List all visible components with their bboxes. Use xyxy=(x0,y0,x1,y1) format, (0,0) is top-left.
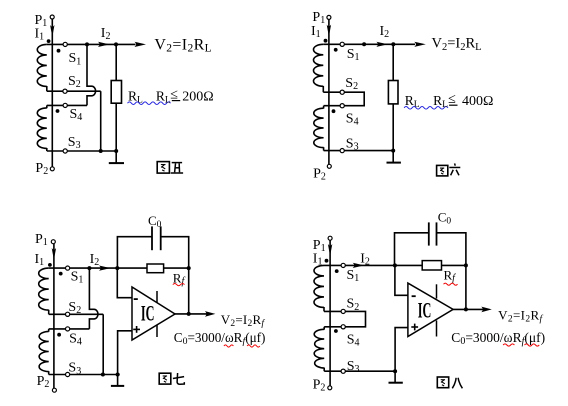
label C0 formula (fig8) xyxy=(451,330,545,347)
wire ground stub (fig6) xyxy=(392,151,394,163)
label S3 (fig5) xyxy=(68,135,81,151)
polarity dot secondary-2 (fig8) xyxy=(334,329,338,333)
secondary winding lower (fig7) xyxy=(39,329,49,375)
spellcheck squiggle blue (fig5) xyxy=(128,102,171,105)
node junction output (fig8) xyxy=(464,307,468,311)
wire S2 line (fig5) xyxy=(47,90,101,92)
terminal S3 (fig5) xyxy=(63,149,67,153)
wire Rf to right node (fig7) xyxy=(164,267,189,269)
terminal S2 (fig8) xyxy=(341,309,345,313)
terminal P2 (fig8) xyxy=(328,386,332,390)
wire bottom node S3 line (fig6) xyxy=(324,150,394,152)
wire bottom node S3 line (fig5) xyxy=(47,150,117,152)
wire bottom node line (fig7) xyxy=(49,374,120,376)
current arrow I2 (fig7) xyxy=(99,266,111,271)
node junction ground (fig5) xyxy=(114,149,118,153)
node junction S2-S3 (fig7) xyxy=(101,373,105,377)
label I2 (fig5) xyxy=(101,26,111,42)
wire primary conductor P1-P2 (fig7) xyxy=(53,244,55,389)
power pin top (fig8) xyxy=(436,284,438,298)
capacitor C0 (fig7) xyxy=(152,226,161,250)
label I2 (fig8) xyxy=(360,251,370,267)
label lessequal bar (fig6) xyxy=(449,104,457,106)
label S1 (fig6) xyxy=(347,47,360,63)
terminal S3 (fig8) xyxy=(341,369,345,373)
current arrow I2 (fig5) xyxy=(98,42,110,47)
terminal P1 (fig8) xyxy=(328,236,332,240)
wire C0 top-left (fig8) xyxy=(395,233,429,266)
polarity dot primary (fig5) xyxy=(47,39,51,43)
polarity dot secondary-2 (fig6) xyxy=(332,109,336,113)
current arrow I1 (fig6) xyxy=(327,25,331,37)
node junction Rf right (fig7) xyxy=(187,266,191,270)
label S3 (fig7) xyxy=(68,361,81,377)
label IC (fig7) xyxy=(141,300,155,325)
caption fig6 glyph tu xyxy=(437,165,448,176)
secondary winding lower (fig8) xyxy=(314,327,324,371)
op-amp IC U2 (fig8) xyxy=(408,283,453,336)
label RL (fig5) xyxy=(128,88,143,105)
polarity dot secondary-1 (fig7) xyxy=(59,272,63,276)
wire top node S1 line (fig6) xyxy=(323,43,415,45)
wire S4 line (fig7) xyxy=(49,328,90,330)
wire S1-S4 crossover hop (fig7) xyxy=(89,268,98,329)
label plus (fig8) xyxy=(411,324,418,331)
terminal S1 (fig8) xyxy=(341,263,345,267)
primary winding upper (fig7) xyxy=(39,268,49,314)
wire C0 top-right (fig8) xyxy=(437,233,466,310)
label S2 (fig6) xyxy=(345,76,358,92)
current arrow I1 (fig7) xyxy=(52,248,56,260)
power pin bottom (fig8) xyxy=(436,321,438,337)
wire top node S1 line (fig5) xyxy=(47,43,136,45)
wire RL top lead (fig6) xyxy=(392,44,394,80)
label S3 (fig6) xyxy=(346,136,359,152)
wire output (fig7) xyxy=(175,313,208,315)
wire Rf to right node (fig8) xyxy=(442,264,466,266)
polarity dot primary (fig6) xyxy=(324,39,328,43)
label I1 (fig7) xyxy=(35,252,45,268)
terminal P2 (fig7) xyxy=(52,388,56,392)
resistor RL (fig6) xyxy=(388,81,398,104)
label S4 (fig7) xyxy=(69,332,82,348)
power pin bottom (fig7) xyxy=(156,325,158,337)
current arrow I1 (fig8) xyxy=(328,244,332,256)
node junction inverting input (fig7) xyxy=(115,266,119,270)
polarity dot primary (fig7) xyxy=(48,263,52,267)
op-amp IC U1 (fig7) xyxy=(132,287,175,340)
spellcheck squiggle red uf (fig7) xyxy=(247,345,260,347)
label I1 (fig5) xyxy=(35,26,45,42)
label P2 (fig6) xyxy=(313,167,326,183)
label I2 (fig6) xyxy=(380,24,390,40)
wire primary conductor P1-P2 (fig5) xyxy=(51,19,53,167)
node junction ground (fig6) xyxy=(391,149,395,153)
svg-text:V2=I2RL: V2=I2RL xyxy=(432,36,482,53)
primary winding upper (fig8) xyxy=(314,265,324,311)
resistor Rf (fig8) xyxy=(422,261,441,270)
spellcheck squiggle red omega (fig8) xyxy=(503,344,514,346)
wire S2 line (fig7) xyxy=(49,313,103,315)
node junction ground (fig7) xyxy=(116,373,120,377)
wire S2-S3 connection (fig5) xyxy=(100,91,102,151)
ground (fig5) xyxy=(109,162,124,164)
wire top node S1-Rf line (fig8) xyxy=(324,264,422,266)
node junction RL top (fig6) xyxy=(391,42,395,46)
wire S2-S3 connection (fig7) xyxy=(102,314,104,374)
label C0 (fig8) xyxy=(438,210,452,227)
output arrow (fig7) xyxy=(205,311,216,317)
polarity dot secondary-2 (fig5) xyxy=(56,109,60,113)
svg-text:400Ω: 400Ω xyxy=(462,94,493,109)
terminal P1 (fig6) xyxy=(327,15,331,19)
output arrow (fig6) xyxy=(414,42,426,47)
wire inverting input (fig8) xyxy=(395,265,408,295)
wire RL bottom lead (fig6) xyxy=(392,104,394,151)
label P2 (fig8) xyxy=(313,378,326,394)
label V2=I2Rf (fig7) xyxy=(221,312,266,329)
label Rf (fig7) xyxy=(173,270,186,287)
label IC (fig8) xyxy=(418,298,432,323)
resistor Rf (fig7) xyxy=(147,264,164,273)
current arrow I2 (fig6) xyxy=(376,42,388,47)
wire ground stub (fig8) xyxy=(394,371,396,383)
polarity dot secondary-1 (fig6) xyxy=(334,48,338,52)
terminal S4 (fig6) xyxy=(340,104,344,108)
node junction output (fig7) xyxy=(187,312,191,316)
label C0 formula (fig7) xyxy=(174,330,266,347)
terminal P2 (fig6) xyxy=(327,164,331,168)
secondary winding lower (fig6) xyxy=(314,106,324,151)
terminal S1 (fig5) xyxy=(63,42,67,46)
label S2 (fig7) xyxy=(68,300,81,316)
label plus (fig7) xyxy=(133,326,140,333)
wire RL bottom lead (fig5) xyxy=(115,103,117,151)
polarity dot secondary-1 (fig8) xyxy=(335,269,339,273)
terminal S4 (fig7) xyxy=(66,327,70,331)
label P2 (fig7) xyxy=(37,374,50,390)
polarity dot secondary-1 (fig5) xyxy=(57,49,61,53)
label 200ohm (fig5) xyxy=(182,89,213,104)
spellcheck squiggle blue (fig6) xyxy=(404,107,448,110)
node junction RL top (fig5) xyxy=(114,42,118,46)
svg-text:V2=I2Rf: V2=I2Rf xyxy=(498,307,543,324)
label V2=I2RL (fig5) xyxy=(154,37,212,55)
terminal P1 (fig5) xyxy=(50,15,54,19)
current arrow I2 (fig8) xyxy=(353,263,365,268)
terminal S2 (fig6) xyxy=(340,90,344,94)
wire ground stub (fig5) xyxy=(115,151,117,163)
wire S1-S4 crossover hop (fig5) xyxy=(87,44,96,105)
terminal S4 (fig8) xyxy=(341,325,345,329)
terminal S4 (fig5) xyxy=(63,103,67,107)
secondary winding lower (fig5) xyxy=(37,105,47,151)
output arrow (fig5) xyxy=(135,42,147,47)
label minus (fig8) xyxy=(412,295,416,297)
caption fig7 glyph qi xyxy=(173,373,184,384)
node junction Rf right (fig8) xyxy=(464,263,468,267)
node junction top-left (fig5) xyxy=(85,42,89,46)
caption fig8 glyph tu xyxy=(437,377,448,388)
ground (fig6) xyxy=(387,162,401,164)
wire S4 line (fig6) xyxy=(324,105,343,107)
svg-text:200Ω: 200Ω xyxy=(182,89,213,104)
ground (fig7) xyxy=(111,385,124,387)
terminal P1 (fig7) xyxy=(51,240,55,244)
label Rf (fig8) xyxy=(444,267,457,284)
wire S2-S4 series link (fig6) xyxy=(344,92,364,106)
wire S2 line (fig8) xyxy=(324,310,343,312)
wire output (fig8) xyxy=(453,308,484,310)
terminal S2 (fig7) xyxy=(66,312,70,316)
wire inverting input (fig7) xyxy=(117,268,132,298)
label S2 (fig8) xyxy=(347,297,360,313)
label C0 (fig7) xyxy=(148,213,162,230)
wire C0 top-right (fig7) xyxy=(161,237,189,314)
wire S2-S4 series link (fig8) xyxy=(345,311,365,326)
label S4 (fig5) xyxy=(70,107,83,123)
node junction top-left (fig7) xyxy=(87,266,91,270)
wire ground stub (fig7) xyxy=(117,375,119,386)
node junction top (fig6) xyxy=(362,42,366,46)
wire RL top lead (fig5) xyxy=(115,44,117,80)
svg-text:IC: IC xyxy=(141,300,155,325)
primary winding upper (fig5) xyxy=(37,44,47,91)
wire noninverting input (fig8) xyxy=(395,328,408,372)
terminal S3 (fig7) xyxy=(66,372,70,376)
label S4 (fig8) xyxy=(347,333,360,349)
label P2 (fig5) xyxy=(35,161,48,177)
node junction ground (fig8) xyxy=(393,369,397,373)
label RL limit (fig5) xyxy=(156,88,171,105)
svg-text:C0=3000/ωRf(μf): C0=3000/ωRf(μf) xyxy=(174,330,266,347)
caption fig6 glyph liu xyxy=(449,163,460,175)
spellcheck squiggle red omega (fig7) xyxy=(224,345,234,347)
caption fig8 glyph ba xyxy=(452,378,462,389)
label S1 (fig5) xyxy=(69,51,82,67)
label P1 (fig6) xyxy=(312,10,325,26)
terminal P2 (fig5) xyxy=(50,167,54,171)
label lessequal (fig5) xyxy=(170,87,178,102)
svg-text:C0=3000/ωRf(μf): C0=3000/ωRf(μf) xyxy=(451,330,545,347)
label lessequal bar (fig5) xyxy=(172,100,180,102)
svg-text:IC: IC xyxy=(418,298,432,323)
wire bottom node line (fig8) xyxy=(324,370,397,372)
spellcheck squiggle red uf (fig8) xyxy=(525,344,540,346)
label S1 (fig8) xyxy=(347,268,360,284)
svg-text:V2=I2Rf: V2=I2Rf xyxy=(221,312,266,329)
polarity dot primary (fig8) xyxy=(325,259,329,263)
wire top node S1-Rf line (fig7) xyxy=(49,267,147,269)
label minus (fig7) xyxy=(134,298,138,300)
label lessequal (fig6) xyxy=(448,92,456,107)
power pin top (fig7) xyxy=(156,291,158,303)
label S3 (fig8) xyxy=(347,359,360,375)
label P1 (fig7) xyxy=(35,232,48,248)
spellcheck squiggle red Rf (fig8) xyxy=(444,283,458,285)
label V2=I2Rf (fig8) xyxy=(498,307,543,324)
node junction inverting input (fig8) xyxy=(393,263,397,267)
spellcheck squiggle red Rf (fig7) xyxy=(173,284,185,286)
resistor RL (fig5) xyxy=(111,81,121,104)
wire C0 top-left (fig7) xyxy=(117,237,152,268)
label V2=I2RL (fig6) xyxy=(432,36,482,53)
wire S2 line (fig6) xyxy=(323,91,342,93)
ground (fig8) xyxy=(389,382,403,384)
current arrow I1 (fig5) xyxy=(50,25,54,37)
wire primary conductor P1-P2 (fig8) xyxy=(329,240,331,386)
label P1 (fig8) xyxy=(313,238,326,254)
wire primary conductor P1-P2 (fig6) xyxy=(328,19,330,164)
terminal S2 (fig5) xyxy=(63,89,67,93)
wire S4 line (fig8) xyxy=(324,326,343,328)
terminal S1 (fig6) xyxy=(340,42,344,46)
wire S4 line (fig5) xyxy=(47,104,87,106)
label S1 (fig7) xyxy=(71,269,84,285)
caption fig5 glyph tu xyxy=(157,162,169,174)
primary winding upper (fig6) xyxy=(313,44,323,92)
polarity dot secondary-2 (fig7) xyxy=(57,333,61,337)
node junction S2-S3 (fig5) xyxy=(99,149,103,153)
svg-text:V2=I2RL: V2=I2RL xyxy=(154,37,212,55)
terminal S1 (fig7) xyxy=(66,266,70,270)
capacitor C0 (fig8) xyxy=(429,222,437,245)
label I1 (fig6) xyxy=(311,24,321,40)
label P1 (fig5) xyxy=(35,13,48,29)
label RL (fig6) xyxy=(405,93,420,110)
label 400ohm (fig6) xyxy=(462,94,493,109)
label S2 (fig5) xyxy=(68,74,81,90)
caption fig5 glyph wu xyxy=(171,163,183,173)
label I2 (fig7) xyxy=(90,252,100,268)
terminal S3 (fig6) xyxy=(340,149,344,153)
label RL limit (fig6) xyxy=(433,93,448,110)
caption fig7 glyph tu xyxy=(159,373,171,384)
wire noninverting input (fig7) xyxy=(118,331,132,375)
label I1 (fig8) xyxy=(313,252,323,268)
label S4 (fig6) xyxy=(346,112,359,128)
output arrow (fig8) xyxy=(481,307,492,313)
